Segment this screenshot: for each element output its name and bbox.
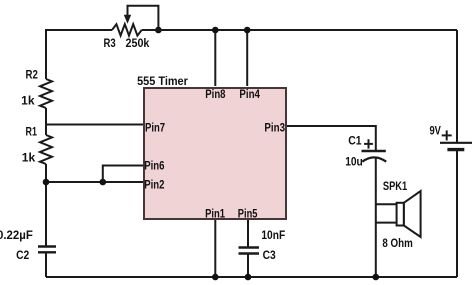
node: top rail / Pin4 junction: [244, 27, 251, 34]
IC U1 555 timer body: [144, 88, 286, 219]
wire C1 to speaker and bottom rail: [375, 158, 377, 277]
svg-text:Pin4: Pin4: [239, 87, 260, 101]
wire speaker bottom terminal: [376, 222, 397, 224]
potentiometer R3: [112, 6, 158, 36]
wire top rail left segment: [46, 30, 112, 79]
svg-text:Pin7: Pin7: [145, 120, 165, 134]
resistor R1: [40, 135, 52, 164]
wire Pin8: [214, 30, 216, 86]
wire left rail between R2 and R1: [45, 108, 47, 135]
svg-text:Pin5: Pin5: [238, 207, 258, 221]
wire right rail upper (battery positive to top rail): [456, 30, 458, 142]
polarity plus sign of C1: [364, 139, 373, 148]
wire left rail below R1: [45, 164, 47, 246]
node: wiper junction on top rail: [155, 27, 162, 34]
svg-text:10nF: 10nF: [261, 228, 285, 242]
svg-text:Pin2: Pin2: [144, 178, 164, 192]
capacitor C3: [239, 248, 260, 254]
wire Pin2: [46, 181, 144, 183]
node: Pin1 / bottom rail junction: [212, 274, 219, 281]
svg-text:1k: 1k: [22, 151, 36, 165]
svg-text:C2: C2: [16, 248, 29, 262]
svg-text:1k: 1k: [21, 93, 35, 107]
svg-text:555 Timer: 555 Timer: [137, 74, 188, 88]
wire Pin5 to C3: [247, 220, 249, 247]
svg-text:R2: R2: [26, 68, 39, 82]
node: left rail / Pin2 junction: [43, 179, 50, 186]
svg-text:C1: C1: [348, 133, 362, 147]
svg-text:Pin8: Pin8: [205, 87, 225, 101]
wire left rail below C2: [45, 254, 47, 278]
node: speaker branch / bottom rail junction: [373, 274, 380, 281]
wire right rail lower (battery negative to bottom rail): [456, 151, 458, 277]
wire Pin1 to bottom rail: [214, 220, 216, 277]
node: Pin5 / bottom rail junction: [245, 274, 252, 281]
wire C3 to bottom rail: [247, 255, 249, 278]
battery B1 9V: [440, 143, 472, 150]
speaker SPK1: [397, 191, 421, 237]
resistor R2: [40, 79, 52, 108]
polarity plus sign of battery: [442, 130, 452, 140]
svg-text:Pin6: Pin6: [144, 159, 164, 173]
wire speaker top terminal: [376, 203, 397, 205]
svg-text:8 Ohm: 8 Ohm: [382, 236, 412, 250]
wire bottom rail: [46, 276, 457, 278]
svg-text:Pin1: Pin1: [205, 207, 225, 221]
capacitor C2: [38, 247, 56, 253]
wire top rail right segment: [142, 29, 457, 31]
svg-text:R1: R1: [26, 125, 38, 139]
wire Pin4: [246, 30, 248, 86]
node: top rail / Pin8 junction: [212, 27, 219, 34]
svg-text:R3: R3: [104, 36, 116, 50]
svg-text:10u: 10u: [345, 154, 363, 168]
svg-text:0.22µF: 0.22µF: [0, 228, 33, 242]
capacitor C1 (polarized): [362, 151, 387, 162]
svg-text:Pin3: Pin3: [264, 120, 285, 134]
svg-text:SPK1: SPK1: [383, 179, 408, 193]
wire Pin3 to C1: [287, 126, 376, 150]
wire Pin7: [46, 124, 144, 126]
svg-text:9V: 9V: [430, 124, 441, 138]
wire Pin6: [103, 166, 144, 183]
svg-text:C3: C3: [263, 248, 276, 262]
node: Pin2/Pin6 branch junction: [100, 179, 107, 186]
svg-text:250k: 250k: [126, 36, 150, 50]
